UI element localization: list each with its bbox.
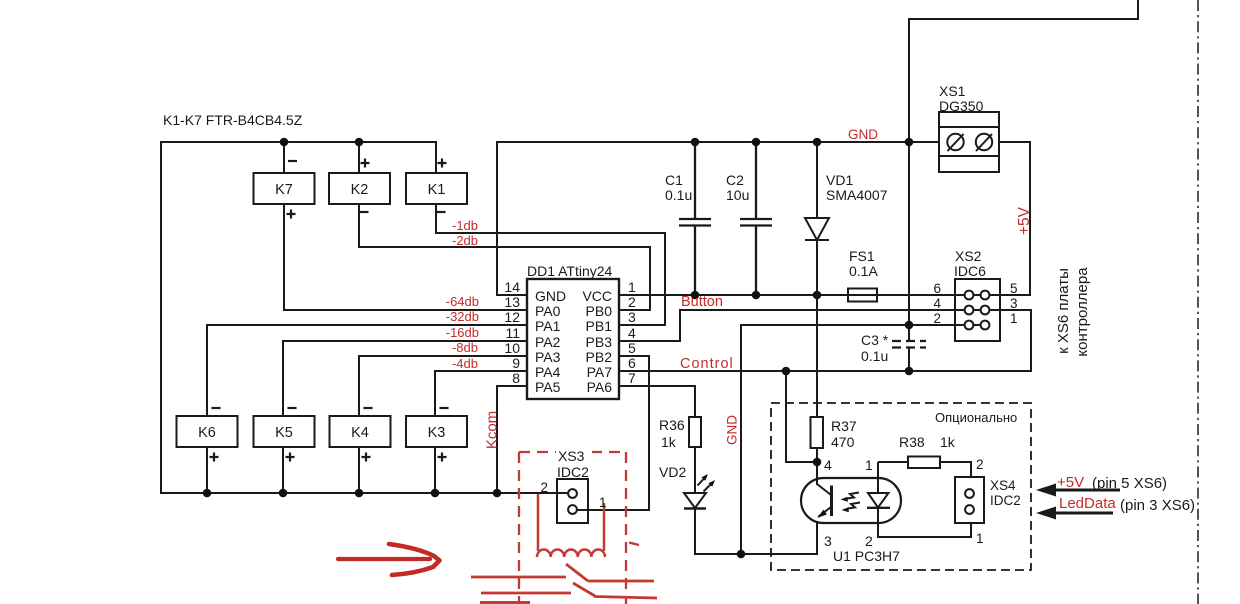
- wire VD2 cathode to emitter rail to opto pin 3: [695, 508, 817, 554]
- svg-text:-64db: -64db: [446, 294, 479, 309]
- svg-text:R38: R38: [899, 434, 925, 450]
- resistor R36: [689, 417, 701, 447]
- svg-text:GND: GND: [725, 415, 740, 445]
- resistor R38: [908, 457, 940, 469]
- XS3 contacts: [568, 489, 577, 498]
- svg-text:9: 9: [512, 355, 520, 371]
- transistor Q inside U1: [830, 486, 833, 517]
- K7 polarity minus: [288, 160, 297, 162]
- relay K7: [254, 173, 315, 204]
- capacitor C3 (dashed optional plates): [892, 341, 926, 348]
- svg-text:-8db: -8db: [452, 340, 478, 355]
- red partial line bottom: [480, 601, 530, 604]
- svg-text:Button: Button: [681, 294, 723, 310]
- svg-text:VD2: VD2: [659, 464, 686, 480]
- XS4 contacts: [965, 489, 974, 498]
- XS2 contacts: [965, 291, 974, 300]
- svg-text:5: 5: [1010, 281, 1018, 296]
- K4 polarity minus: [364, 407, 373, 409]
- svg-text:-32db: -32db: [446, 309, 479, 324]
- svg-text:2: 2: [865, 533, 873, 549]
- svg-text:K5: K5: [275, 425, 293, 441]
- svg-text:PB0: PB0: [586, 303, 613, 319]
- wire node 4 into opto collector: [816, 462, 818, 485]
- svg-text:0.1u: 0.1u: [861, 348, 888, 364]
- wire K3 bottom to Kcom rail: [434, 447, 436, 493]
- svg-text:8: 8: [512, 370, 520, 386]
- svg-text:11: 11: [505, 325, 520, 341]
- svg-text:PA7: PA7: [587, 364, 613, 380]
- svg-text:1: 1: [865, 457, 873, 473]
- svg-text:U1 PC3H7: U1 PC3H7: [833, 548, 900, 564]
- svg-text:-16db: -16db: [446, 325, 479, 340]
- svg-text:K1-K7 FTR-B4CB4.5Z: K1-K7 FTR-B4CB4.5Z: [163, 112, 303, 128]
- svg-text:SMA4007: SMA4007: [826, 187, 888, 203]
- red tiny mark: [629, 543, 639, 546]
- svg-text:1: 1: [599, 495, 607, 510]
- svg-text:PA2: PA2: [535, 334, 561, 350]
- svg-text:C3 *: C3 *: [861, 332, 889, 348]
- svg-text:PA6: PA6: [587, 379, 613, 395]
- wire XS3 pin 2 inner stub: [557, 492, 569, 494]
- wire Button net: DD1 pin 4 (PB3) to XS2 pin 4: [619, 310, 1000, 341]
- svg-text:GND: GND: [535, 288, 566, 304]
- svg-text:3: 3: [628, 309, 636, 325]
- wire K2 coil top to bus: [358, 142, 360, 173]
- svg-text:6: 6: [933, 281, 941, 296]
- svg-text:XS3: XS3: [558, 448, 585, 464]
- K6 polarity plus: [210, 453, 219, 462]
- svg-text:2: 2: [628, 294, 636, 310]
- wire GND branch: XS2 pin 2 row left and down to opto emitter rail: [741, 325, 985, 554]
- K1 polarity plus: [438, 159, 447, 168]
- wire relay common bus (top-left rail, left vertical, bottom Kcom rail): [161, 142, 557, 493]
- svg-text:2: 2: [933, 311, 941, 326]
- wire C3 vertical from GND rail through C3 to Control line: [908, 142, 910, 371]
- svg-text:FS1: FS1: [849, 248, 875, 264]
- wire opto pin 1 through R38 to XS4 pin 2: [878, 462, 971, 493]
- K4 polarity plus: [362, 453, 371, 462]
- wire +5V/VCC rail from DD1 pin 1 through FS1 to XS2 pin 6: [619, 294, 1000, 296]
- svg-text:-2db: -2db: [452, 233, 478, 248]
- svg-text:XS1: XS1: [939, 83, 966, 99]
- svg-text:GND: GND: [848, 127, 878, 142]
- svg-text:VD1: VD1: [826, 172, 853, 188]
- svg-text:-4db: -4db: [452, 356, 478, 371]
- svg-text:K2: K2: [351, 182, 369, 198]
- svg-text:PB3: PB3: [586, 334, 613, 350]
- svg-text:5: 5: [628, 340, 636, 356]
- svg-text:IDC2: IDC2: [990, 493, 1021, 508]
- svg-text:DD1 ATtiny24: DD1 ATtiny24: [527, 263, 613, 279]
- svg-text:K1: K1: [428, 182, 446, 198]
- wire DD1 pin 5 (PB2) down to XS3 pin 1: [573, 356, 649, 510]
- svg-text:14: 14: [504, 279, 520, 295]
- red contact sketch switch 2: [481, 583, 657, 598]
- K3 polarity minus: [440, 407, 449, 409]
- svg-text:R37: R37: [831, 418, 857, 434]
- relay K2: [329, 173, 390, 204]
- wire R37 bottom to node 4: [816, 448, 818, 462]
- label XS3 IDC2: [556, 448, 592, 462]
- svg-text:Control: Control: [680, 356, 734, 372]
- K3 polarity plus: [438, 453, 447, 462]
- fuse FS1: [848, 289, 877, 302]
- svg-text:PA5: PA5: [535, 379, 561, 395]
- connector XS1 DG350 body: [939, 112, 999, 172]
- svg-text:LedData: LedData: [1059, 495, 1116, 512]
- svg-text:0.1u: 0.1u: [665, 187, 692, 203]
- svg-text:Опционально: Опционально: [935, 410, 1017, 425]
- wire R36 to VD2: [694, 447, 696, 493]
- XS1 screw terminal 1: [947, 134, 963, 150]
- svg-text:4: 4: [628, 325, 636, 341]
- svg-text:контроллера: контроллера: [1074, 267, 1091, 357]
- wire DD1 pin 8 (PA5) down to Kcom rail: [497, 386, 527, 493]
- svg-text:1: 1: [1010, 311, 1018, 326]
- wire K2 bottom to DD1 pin 2 (-2db net): [359, 204, 650, 310]
- svg-text:0.1A: 0.1A: [849, 263, 878, 279]
- svg-text:1: 1: [976, 531, 984, 546]
- svg-text:3: 3: [824, 533, 832, 549]
- svg-text:C1: C1: [665, 172, 683, 188]
- svg-text:2: 2: [540, 480, 548, 495]
- wire VD1 bottom down to R37 top: [816, 295, 818, 417]
- svg-text:+5V: +5V: [1057, 474, 1084, 491]
- diode VD1: [805, 142, 829, 295]
- wire Control net: DD1 pin 6 (PA7) to XS2 pin 3: [619, 310, 1031, 371]
- junction dots: [280, 138, 289, 147]
- svg-text:IDC6: IDC6: [954, 263, 986, 279]
- svg-text:6: 6: [628, 355, 636, 371]
- svg-text:(pin 5 XS6): (pin 5 XS6): [1092, 475, 1167, 492]
- LED inside U1: [868, 493, 889, 508]
- svg-text:-1db: -1db: [452, 218, 478, 233]
- K6 polarity minus: [212, 407, 221, 409]
- connector XS2 IDC6 body: [955, 279, 1000, 341]
- red relay coil sketch leads: [538, 494, 604, 551]
- arrow LedData input: [1036, 507, 1113, 520]
- resistor R37: [811, 417, 824, 448]
- svg-text:470: 470: [831, 434, 855, 450]
- wire GND net: DD1 pin 14 up to top GND rail across to XS1: [497, 142, 939, 295]
- optional block dashed border: [771, 403, 1031, 570]
- wire Control branch down to node 4 of U1: [786, 371, 817, 462]
- relay K6: [177, 416, 238, 447]
- wire XS1 right terminal +5V down to XS2 pin 5: [999, 142, 1030, 295]
- wire K5 top to DD1 pin 11 (-16db net): [283, 341, 527, 416]
- wire opto pin 2 to XS4 pin 1: [878, 508, 971, 537]
- wire K7 coil top to bus: [283, 142, 285, 173]
- wire K1 bottom to DD1 pin 3 (-1db net): [436, 204, 665, 325]
- svg-text:K3: K3: [428, 425, 446, 441]
- K5 polarity plus: [286, 453, 295, 462]
- svg-text:2: 2: [976, 457, 984, 472]
- LED VD2: [684, 493, 706, 508]
- wire DD1 pin 7 (PA6) to R36: [619, 386, 695, 417]
- red relay coil sketch: [537, 550, 605, 558]
- svg-text:1: 1: [628, 279, 636, 295]
- svg-text:3: 3: [1010, 296, 1018, 311]
- U1 emitter arrowhead: [817, 510, 827, 518]
- wire K4 top to DD1 pin 10 (-8db net): [359, 356, 527, 416]
- connector XS3 IDC2 body: [557, 479, 588, 523]
- svg-text:XS4: XS4: [990, 478, 1016, 493]
- wire K3 top to DD1 pin 9 (-4db net): [435, 371, 527, 416]
- svg-text:DG350: DG350: [939, 98, 984, 114]
- K1 polarity minus: [437, 211, 446, 213]
- svg-text:7: 7: [628, 370, 636, 386]
- op-amp DD1 ATtiny24 body: [527, 279, 619, 399]
- svg-text:R36: R36: [659, 417, 685, 433]
- svg-text:10: 10: [504, 340, 520, 356]
- page border dash-dot line: [1197, 0, 1199, 604]
- wire K5 bottom to Kcom rail: [282, 447, 284, 493]
- XS1 screw terminal 2: [976, 134, 992, 150]
- svg-text:K7: K7: [275, 182, 293, 198]
- red contact sketch switch 1: [471, 564, 654, 581]
- svg-text:K4: K4: [351, 425, 369, 441]
- relay K5: [254, 416, 315, 447]
- wire top-right GND stub leaving page: [909, 0, 1138, 142]
- red hand-drawn arrow: [338, 544, 440, 575]
- light arrows inside U1: [847, 493, 860, 509]
- K7 polarity plus: [287, 210, 296, 219]
- relay K4: [330, 416, 391, 447]
- svg-text:IDC2: IDC2: [557, 464, 589, 480]
- svg-text:(pin 3 XS6): (pin 3 XS6): [1120, 497, 1195, 514]
- svg-text:PA3: PA3: [535, 349, 561, 365]
- svg-text:C2: C2: [726, 172, 744, 188]
- svg-text:к XS6 платы: к XS6 платы: [1055, 268, 1072, 354]
- K2 polarity plus: [361, 159, 370, 168]
- svg-text:XS2: XS2: [955, 248, 982, 264]
- svg-text:K6: K6: [198, 425, 216, 441]
- wire K7 bottom to DD1 pin 13 (-64db net): [284, 204, 527, 310]
- K5 polarity minus: [288, 407, 297, 409]
- svg-text:PA0: PA0: [535, 303, 561, 319]
- wire K6 top to DD1 pin 12 (-32db net): [207, 325, 527, 416]
- svg-text:4: 4: [933, 296, 941, 311]
- svg-text:VCC: VCC: [582, 288, 612, 304]
- svg-text:+5V: +5V: [1016, 206, 1033, 235]
- svg-text:12: 12: [504, 309, 520, 325]
- svg-text:Kcom: Kcom: [484, 411, 501, 449]
- wire K6 bottom to Kcom rail: [206, 447, 208, 493]
- relay K3: [406, 416, 467, 447]
- svg-text:1k: 1k: [661, 434, 677, 450]
- capacitor C2: [740, 142, 772, 295]
- relay K1: [406, 173, 467, 204]
- op-amp U1 PC3H7 optocoupler body: [801, 478, 901, 523]
- connector XS4 IDC2 body: [955, 477, 984, 523]
- svg-text:13: 13: [504, 294, 520, 310]
- svg-text:10u: 10u: [726, 187, 749, 203]
- svg-text:PB2: PB2: [586, 349, 613, 365]
- svg-text:1k: 1k: [940, 434, 956, 450]
- svg-text:PB1: PB1: [586, 318, 613, 334]
- VD2 arrowheads: [702, 474, 709, 481]
- arrow +5V input: [1036, 484, 1120, 497]
- svg-text:PA1: PA1: [535, 318, 561, 334]
- XS3 red dashed outline: [519, 452, 626, 604]
- svg-text:PA4: PA4: [535, 364, 561, 380]
- K2 polarity minus: [360, 211, 369, 213]
- svg-text:4: 4: [824, 457, 832, 473]
- capacitor C1: [679, 142, 711, 295]
- wire K4 bottom to Kcom rail: [358, 447, 360, 493]
- U1 light arrowheads: [841, 497, 848, 502]
